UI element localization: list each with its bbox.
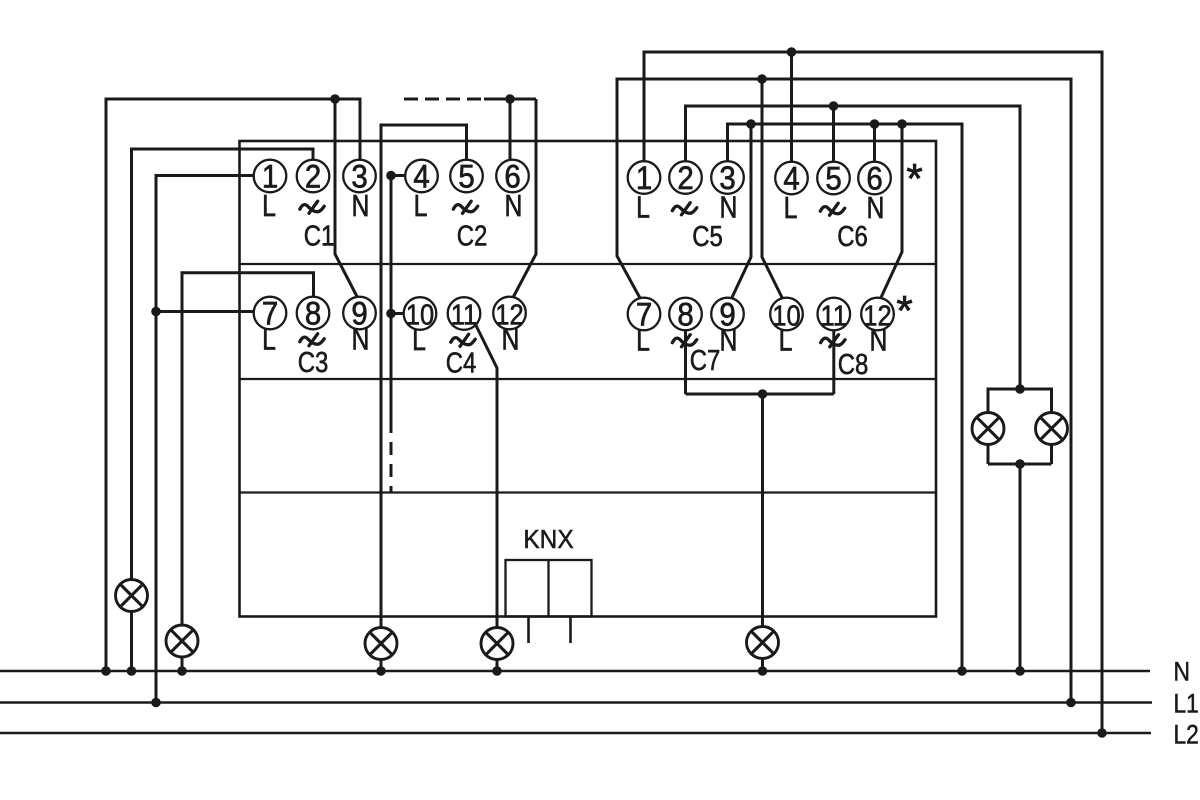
svg-text:C6: C6 (837, 220, 868, 252)
lamp E1 (116, 580, 148, 612)
node N net to C8 terminal 12 (897, 119, 907, 129)
wire branch from node at (335,99) down to C3 terminal 9 (335, 99, 358, 298)
wire branch to C6 terminal 4 (790, 52, 793, 162)
node C2/C4 N feed (505, 94, 515, 104)
node N rail x497 (492, 666, 502, 676)
svg-text:11: 11 (821, 299, 847, 332)
wire branch L1 feed to terminal 7 (156, 310, 254, 313)
wire stub to terminal 10 (391, 312, 404, 315)
terminal 12 C8 (861, 298, 894, 331)
L1 rail (0, 701, 1152, 704)
lamp E7 (parallel pair right) (1036, 413, 1068, 445)
terminal 7 C3 (254, 297, 287, 330)
svg-text:L: L (414, 188, 428, 222)
lamp E2 (166, 625, 198, 657)
wire dashed continuation N feed of C2/C4 (404, 98, 484, 101)
dimmer symbol term11 C8 (821, 335, 845, 347)
wire C5/C6 dim output net to right lamp pair (686, 106, 1021, 389)
wire lamp pair to N rail (1019, 464, 1022, 671)
channel labels (298, 220, 869, 381)
terminal 2 C5 (669, 161, 702, 194)
device box outline (240, 141, 937, 617)
terminal 9 C3 (343, 297, 376, 330)
svg-text:C4: C4 (446, 347, 477, 379)
L and N terminal labels (262, 188, 887, 357)
node N rail x962 (957, 666, 967, 676)
svg-text:*: * (906, 155, 922, 202)
svg-text:C8: C8 (838, 348, 869, 380)
svg-text:L: L (262, 322, 276, 356)
wire N-right net: C5 terminal 3 over and down to N rail (728, 124, 963, 671)
terminal 9 C7 (711, 298, 744, 331)
lamp E4 (481, 628, 513, 660)
dimmer symbol term2 C1 (300, 201, 324, 213)
wire C8 output terminal 11 down (832, 330, 835, 394)
svg-text:N: N (720, 323, 738, 357)
wire N-left net vertical+top (N rail to C1 terminal 3) (106, 99, 360, 671)
svg-text:5: 5 (458, 158, 474, 194)
dimmer symbol term8 C7 (672, 335, 696, 347)
N rail (0, 670, 1150, 673)
lamp E5 (747, 627, 779, 659)
wire branch to C6 terminal 6 (873, 124, 876, 162)
svg-text:L: L (779, 323, 793, 357)
svg-text:C7: C7 (690, 344, 721, 376)
terminal 4 C2 (405, 160, 438, 193)
KNX bus pin 2 (569, 617, 572, 644)
wire C2 dim output: terminal 5 to lamp E3 line (381, 125, 467, 671)
svg-text:N: N (352, 322, 370, 356)
terminal 6 C2 (496, 160, 529, 193)
wire from node (510,99) down to terminal 6 (509, 99, 512, 161)
box divider 3 (240, 491, 937, 493)
node top-left N (330, 94, 340, 104)
terminal 7 C7 (628, 298, 661, 331)
wire branch to C8 terminal 10 (762, 79, 783, 299)
terminal 5 C2 (450, 160, 483, 193)
lamp E6 (parallel pair left) (972, 413, 1004, 445)
terminal 8 C7 (669, 298, 702, 331)
wire C3 dim output: terminal 8 to lamp E2 line (182, 273, 314, 671)
dimmer symbol term5 C6 (820, 203, 844, 215)
terminal 11 C8 (818, 298, 851, 331)
node N rail x106 (101, 666, 111, 676)
node lamp pair bottom (1015, 459, 1025, 469)
wire L2 net: L2 rail up over to C5 terminal 1 (644, 52, 1102, 733)
node L1 rail x1071 (1066, 698, 1076, 708)
wire parallel lamp pair top (988, 389, 1052, 464)
terminal 6 C6 (858, 162, 891, 195)
svg-text:N: N (502, 322, 520, 356)
node terminal 10 L (386, 309, 396, 319)
wire branch to C8 terminal 12 (881, 124, 902, 298)
dimmer symbol term11 C4 (451, 334, 475, 346)
box divider 1 (240, 263, 937, 265)
KNX terminal block (506, 560, 592, 617)
KNX block divider (547, 560, 549, 617)
svg-text:L: L (412, 322, 426, 356)
KNX bus pin 1 (527, 617, 530, 644)
wire L jumper terminals 4 and 10 (solid part) (390, 176, 393, 421)
svg-text:N: N (505, 188, 523, 222)
node N rail x1020 (1015, 666, 1025, 676)
wire C4 dim output: terminal 11 to lamp E4 (476, 325, 498, 672)
svg-text:8: 8 (305, 295, 321, 331)
wire joining C7 and C8 outputs (686, 393, 834, 396)
wire L1 net: L1 rail up over to C7 terminal 7 (617, 79, 1071, 703)
wire to lamp E5 (761, 394, 764, 671)
svg-text:8: 8 (677, 296, 693, 332)
svg-text:L1: L1 (1174, 690, 1199, 719)
svg-text:5: 5 (825, 160, 841, 196)
svg-text:C5: C5 (692, 220, 723, 252)
terminal 4 C6 (775, 162, 808, 195)
terminal 3 C1 (343, 160, 376, 193)
node N rail x762 (758, 666, 768, 676)
terminal 2 C1 (297, 160, 330, 193)
wire branch to C7 terminal 9 (732, 124, 752, 299)
svg-text:N: N (870, 323, 888, 357)
node terminal 4 L (386, 171, 396, 181)
svg-text:L: L (262, 188, 276, 222)
svg-text:L: L (784, 190, 798, 224)
terminal 10 C4 (404, 297, 437, 330)
node N net to C7 terminal 9 (746, 119, 756, 129)
node lamp pair top (1015, 384, 1025, 394)
dimmer symbol term8 C3 (300, 334, 324, 346)
svg-text:*: * (896, 287, 912, 334)
svg-text:11: 11 (451, 298, 477, 331)
node L2 top to C6 (787, 47, 797, 57)
node N rail x381 (376, 666, 386, 676)
wire stub to terminal 4 (391, 174, 406, 177)
dimmer symbol term2 C5 (672, 203, 696, 215)
svg-text:C1: C1 (304, 220, 335, 252)
terminal 1 C1 (254, 160, 287, 193)
wire C1 dim output net: lamp E1 line to terminal 2 (132, 149, 314, 671)
node L1 rail x156 (151, 698, 161, 708)
terminal 5 C6 (817, 162, 850, 195)
terminal 10 C8 (770, 298, 803, 331)
node C7/C8 outputs join (758, 389, 768, 399)
terminal circles row 1 (254, 160, 894, 331)
node L2 rail x1102 (1097, 728, 1107, 738)
terminal 11 C4 (448, 297, 481, 330)
wire N feed C2/C4 solid (484, 98, 536, 101)
svg-text:N: N (352, 188, 370, 222)
terminal numbers row 1 (262, 158, 883, 332)
terminal 8 C3 (297, 297, 330, 330)
lamp E3 (365, 628, 397, 660)
svg-text:2: 2 (305, 158, 321, 194)
svg-text:L: L (636, 323, 650, 357)
svg-text:N: N (720, 190, 738, 224)
svg-text:L: L (636, 190, 650, 224)
svg-text:2: 2 (677, 160, 693, 196)
terminal 3 C5 (711, 161, 744, 194)
node N rail x131 (127, 666, 137, 676)
dimmer symbol term5 C2 (453, 201, 477, 213)
svg-text:L2: L2 (1174, 721, 1199, 750)
wire parallel lamp pair bottom (988, 463, 1052, 466)
svg-text:C2: C2 (457, 220, 488, 252)
wire L jumper dashed continuation (390, 420, 393, 493)
svg-text:KNX: KNX (523, 525, 573, 554)
node terminal 7 branch (151, 307, 161, 317)
svg-text:N: N (867, 190, 885, 224)
wire from (536,99) down to C4 terminal 12 (513, 99, 536, 298)
node N net to C6 terminal 6 (870, 119, 880, 129)
wire C7 output terminal 8 down (684, 330, 687, 394)
wire branch to C6 terminal 5 (832, 106, 835, 162)
terminal 12 C4 (493, 297, 526, 330)
terminal 1 C5 (628, 161, 661, 194)
svg-text:N: N (1174, 658, 1190, 687)
L2 rail (0, 732, 1151, 735)
node N rail x182 (177, 666, 187, 676)
svg-text:C3: C3 (298, 346, 329, 378)
node dim net to C6 terminal 5 (829, 101, 839, 111)
box divider 2 (240, 378, 937, 380)
node L1 top to C8 (757, 74, 767, 84)
wire L1 feed to terminal 1 (156, 176, 254, 703)
